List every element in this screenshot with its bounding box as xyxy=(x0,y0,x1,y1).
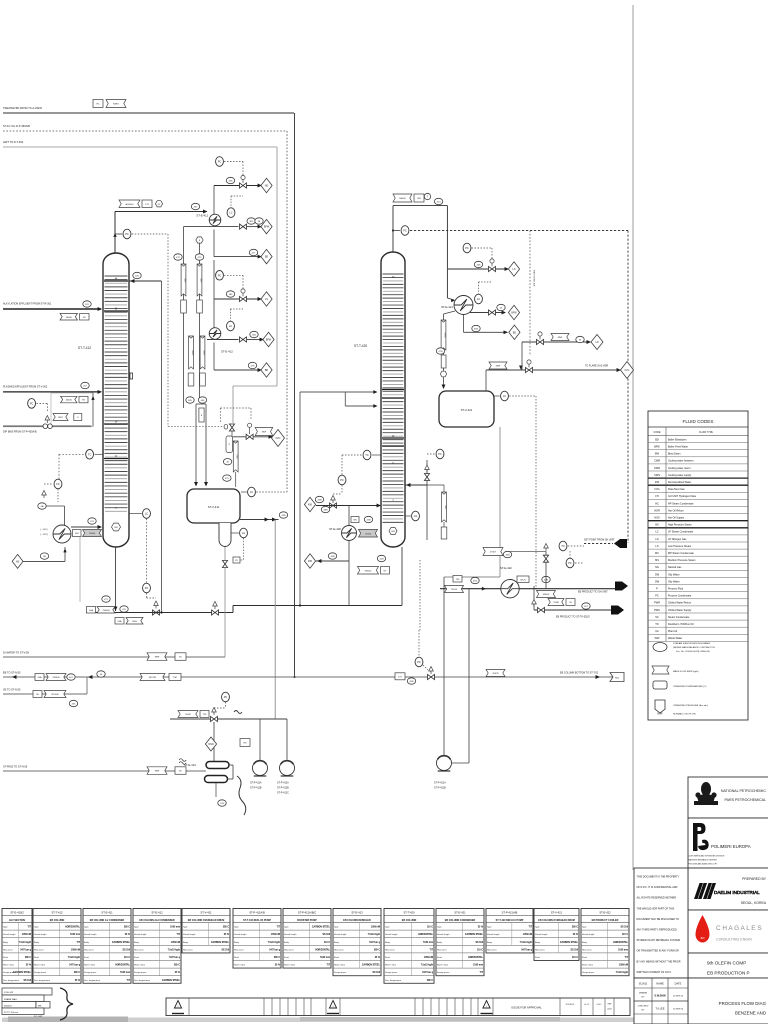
svg-text:ST-T-410 REFLUX PUMP: ST-T-410 REFLUX PUMP xyxy=(243,919,271,922)
wire flagline B xyxy=(183,227,185,408)
text prepared by xyxy=(742,877,767,881)
logo Chagales red drop xyxy=(696,915,710,943)
svg-text:ST-E-420: ST-E-420 xyxy=(329,527,341,531)
svg-text:PC: PC xyxy=(403,229,407,233)
svg-text:7.5x10 kg/h: 7.5x10 kg/h xyxy=(168,949,181,951)
svg-text:554/6: 554/6 xyxy=(185,714,191,716)
squiggle pnnz xyxy=(179,759,186,765)
svg-text:CARBON STEEL: CARBON STEEL xyxy=(560,941,579,944)
box overhead c2 xyxy=(414,194,424,202)
wire e421 drop xyxy=(463,315,465,333)
wire boot drop xyxy=(224,547,226,657)
wire drum lc stub xyxy=(241,491,247,493)
column ST-T-412 tray numbers xyxy=(115,279,118,511)
stream bubble condensate xyxy=(436,348,444,354)
instrument PC e412 xyxy=(216,271,224,281)
label product F xyxy=(578,591,608,594)
svg-text:EB COLUMN CONDENSER: EB COLUMN CONDENSER xyxy=(445,919,476,922)
title block box Polimeri xyxy=(688,818,768,868)
svg-text:BOOSTER PUMP: BOOSTER PUMP xyxy=(297,919,317,922)
relief hat G xyxy=(532,600,537,608)
svg-text:ST-E-413: ST-E-413 xyxy=(351,911,363,915)
valve vent e411 xyxy=(240,175,247,188)
label ST-E-422 xyxy=(500,566,512,570)
reboiler outlet line xyxy=(71,525,102,529)
wire PC-valve dashed xyxy=(147,593,157,598)
label ST-T-420 xyxy=(354,344,367,348)
instrument PC bottoms xyxy=(143,583,151,593)
svg-text:CARBON STEEL: CARBON STEEL xyxy=(465,933,484,936)
instrument PC e411 xyxy=(216,157,224,167)
svg-text:FRAME WALL: FRAME WALL xyxy=(4,998,18,1001)
valve feed c2 xyxy=(330,503,337,508)
svg-text:CWR: CWR xyxy=(654,467,660,470)
svg-text:Blow Down: Blow Down xyxy=(668,453,681,456)
svg-text:FVC: FVC xyxy=(625,369,630,372)
svg-text:PWR: PWR xyxy=(654,602,660,605)
svg-text:45N: 45N xyxy=(330,556,334,558)
wire LC-PC dashed xyxy=(146,519,148,584)
valve bottoms xyxy=(153,610,160,615)
svg-text:EB COLUMN OVERHEAD DRUM: EB COLUMN OVERHEAD DRUM xyxy=(538,919,575,922)
wire sh dashed xyxy=(568,546,584,563)
svg-text:NNN: NNN xyxy=(208,743,213,746)
svg-text:STORED IN ANY RETRIEVAL SYSTEM: STORED IN ANY RETRIEVAL SYSTEM xyxy=(637,939,680,942)
svg-text:SS 316: SS 316 xyxy=(570,949,578,951)
svg-text:Demineralized Water: Demineralized Water xyxy=(668,481,691,484)
stream bubble reboiler feed xyxy=(40,553,48,559)
wire lg dashed xyxy=(235,538,244,560)
svg-text:MN: MN xyxy=(38,1005,42,1007)
wire drum2 lc stub xyxy=(494,395,500,397)
valve boot xyxy=(222,561,227,568)
diamond BFW2 xyxy=(263,332,274,346)
svg-text:PC: PC xyxy=(30,401,34,405)
label P-421 xyxy=(434,782,446,790)
stream bubble G xyxy=(582,603,590,609)
svg-text:OW: OW xyxy=(655,580,660,583)
svg-text:CARBON STEEL: CARBON STEEL xyxy=(13,971,32,974)
column ST-T-420 shell xyxy=(381,252,405,547)
svg-text:285 C: 285 C xyxy=(74,972,80,974)
wire flagline C xyxy=(199,244,201,401)
svg-text:ISSUE FOR APPROVAL: ISSUE FOR APPROVAL xyxy=(511,1006,542,1010)
wire e421 to drop xyxy=(444,311,456,314)
svg-text:Hot Oil Supply: Hot Oil Supply xyxy=(668,517,685,520)
stream bubble 231 xyxy=(83,301,91,307)
svg-text:ANY THIRD PARTY, REPRODUCED,: ANY THIRD PARTY, REPRODUCED, xyxy=(637,929,678,932)
svg-text:NNF: NNF xyxy=(262,432,267,434)
svg-text:EB COLUMN 1st CONDENSER: EB COLUMN 1st CONDENSER xyxy=(90,919,125,922)
wire lg stub c2 xyxy=(405,515,411,517)
svg-text:VE TO ST-N-55: VE TO ST-N-55 xyxy=(3,689,21,692)
diamond HS reboiler xyxy=(12,554,23,568)
flag NN2 EB bottoms xyxy=(610,673,624,682)
instrument LG c2 xyxy=(412,511,420,521)
svg-text:ALKYLATION EFFLUENT FROM ST-R-: ALKYLATION EFFLUENT FROM ST-R-301 xyxy=(3,303,52,306)
svg-text:46N: 46N xyxy=(317,500,321,502)
svg-text:Shell / Tube: Shell / Tube xyxy=(134,965,146,967)
svg-text:ST-P-421B: ST-P-421B xyxy=(434,787,446,790)
vflag vent xyxy=(233,441,238,472)
wire pc eb dashed xyxy=(419,630,428,670)
svg-text:DW: DW xyxy=(655,481,660,484)
svg-text:110 C: 110 C xyxy=(572,957,578,959)
svg-text:(REFER MASS BALANCE CONTRACTOR: (REFER MASS BALANCE CONTRACTOR xyxy=(673,646,715,649)
svg-text:7.5x10 kg/h: 7.5x10 kg/h xyxy=(368,934,381,936)
vflag reflux c2 xyxy=(442,492,447,522)
banner+box EB2 xyxy=(140,674,181,681)
wire product line F xyxy=(440,587,616,591)
wire ls line e412 xyxy=(214,297,262,301)
svg-text:P.O. 64/3: P.O. 64/3 xyxy=(34,1016,43,1018)
stream bubble cnn xyxy=(218,800,226,806)
svg-text:ST-E-413: ST-E-413 xyxy=(184,763,196,767)
svg-text:BFW: BFW xyxy=(266,339,272,342)
wire condensate drop x446 xyxy=(442,314,446,389)
svg-text:Shell / Tube: Shell / Tube xyxy=(284,965,296,967)
svg-text:Medium Pressure Steam: Medium Pressure Steam xyxy=(668,559,696,562)
svg-text:34640: 34640 xyxy=(66,400,73,402)
svg-text:FLASHED EFFLUENT FROM ST-V-302: FLASHED EFFLUENT FROM ST-V-302 xyxy=(3,386,48,389)
svg-text:TO: TO xyxy=(655,623,658,626)
wire overhead run xyxy=(115,210,208,214)
svg-text:Vessel length: Vessel length xyxy=(134,933,147,936)
svg-text:BD: BD xyxy=(265,256,269,259)
svg-text:35 %: 35 % xyxy=(75,980,80,982)
wire hwt drop xyxy=(276,147,278,386)
box NT7 EB xyxy=(395,673,405,680)
svg-text:LC: LC xyxy=(503,394,506,398)
wire vent riser xyxy=(213,186,215,215)
instrument PC feed c2 xyxy=(338,475,346,485)
svg-text:HS: HS xyxy=(16,560,20,563)
svg-text:DATE: DATE xyxy=(675,982,682,986)
svg-text:FLUID TYPE: FLUID TYPE xyxy=(699,431,713,434)
svg-text:42N: 42N xyxy=(379,559,383,561)
svg-text:ST-P-412A: ST-P-412A xyxy=(277,782,289,785)
svg-text:BD: BD xyxy=(513,331,517,334)
valve EB bottoms xyxy=(428,674,435,679)
box boot valve xyxy=(233,557,240,563)
scan bottom smudge band xyxy=(2,1017,766,1023)
svg-text:SC: SC xyxy=(655,616,659,619)
svg-text:Shell / Tube: Shell / Tube xyxy=(437,965,449,967)
text Polimeri sub xyxy=(688,855,725,866)
wire e412 bottom line xyxy=(214,368,262,372)
svg-text:ST-V-421: ST-V-421 xyxy=(551,911,563,915)
column ST-T-412 shell xyxy=(103,253,129,547)
label ST-E-412 xyxy=(221,350,233,354)
vflag C1 xyxy=(197,264,202,296)
diamond BD1 xyxy=(261,249,272,263)
svg-text:Dowtherm 700/Flux Oil: Dowtherm 700/Flux Oil xyxy=(668,623,694,626)
svg-text:45578: 45578 xyxy=(492,673,499,675)
svg-text:5100 mm: 5100 mm xyxy=(70,934,80,936)
svg-text:SC: SC xyxy=(179,771,182,773)
svg-text:54/7 bar g: 54/7 bar g xyxy=(269,948,280,951)
label EB line xyxy=(3,672,21,675)
stream bubble e420 out xyxy=(328,553,336,559)
instrument PC EB bottoms xyxy=(415,657,423,667)
svg-text:456: 456 xyxy=(308,560,313,563)
wire drum feed 2 xyxy=(204,404,208,487)
svg-text:CWS: CWS xyxy=(654,474,660,477)
wire boot lg stub xyxy=(231,532,239,534)
svg-text:43N: 43N xyxy=(281,515,285,517)
svg-text:SS 316: SS 316 xyxy=(620,927,628,929)
instrument LC column1 xyxy=(143,509,151,519)
exchanger ST-E-413 bottom xyxy=(205,776,228,783)
stream bubble EB2 xyxy=(97,671,105,677)
box+banner bottoms1 xyxy=(87,607,116,614)
wire drum outlet xyxy=(240,518,279,522)
svg-text:Heat exch.: Heat exch. xyxy=(234,948,244,951)
wire setpoint drop dashed xyxy=(627,231,629,544)
svg-text:HORIZONTAL: HORIZONTAL xyxy=(315,948,330,951)
svg-text:55600/4: 55600/4 xyxy=(4,1005,12,1007)
svg-text:T/T: T/T xyxy=(127,980,131,982)
stream bubble 411 xyxy=(120,606,128,612)
svg-text:48N: 48N xyxy=(323,510,327,512)
label flare hdr xyxy=(585,365,608,368)
svg-text:T/T: T/T xyxy=(430,949,434,951)
svg-text:ST-E-421: ST-E-421 xyxy=(441,305,453,309)
svg-text:ST-P-421A: ST-P-421A xyxy=(434,782,446,785)
svg-text:26A: 26A xyxy=(89,609,93,612)
valve G xyxy=(538,607,545,612)
stream label ST-FC OIL xyxy=(3,124,30,128)
diamond NG vent xyxy=(261,178,272,192)
squiggle header xyxy=(234,711,242,714)
svg-text:NNF: NNF xyxy=(155,657,160,659)
wire e411 mid line xyxy=(184,225,263,229)
wire reflux riser x161 xyxy=(160,281,162,614)
rounded box flagC low xyxy=(199,408,204,422)
svg-text:CARBON STEEL: CARBON STEEL xyxy=(112,941,131,944)
svg-text:Vessel length: Vessel length xyxy=(437,933,450,936)
wire pc header dashed xyxy=(214,702,226,708)
wire dotted vent rect xyxy=(221,408,252,423)
svg-text:LN: LN xyxy=(595,341,598,344)
svg-text:26A: 26A xyxy=(38,676,42,679)
svg-text:MS: MS xyxy=(655,559,659,562)
svg-text:TC: TC xyxy=(88,452,92,456)
svg-text:CARBON STEEL: CARBON STEEL xyxy=(162,979,181,982)
wire drum2 outlet xyxy=(444,427,500,577)
wire branch dashed x530 xyxy=(529,231,531,357)
text project xyxy=(707,961,750,976)
svg-text:Vessel length: Vessel length xyxy=(3,933,16,936)
wire drum out drop x275 xyxy=(274,520,276,720)
svg-text:THIS DOCUMENT IS THE PROPERTY: THIS DOCUMENT IS THE PROPERTY xyxy=(637,876,680,879)
wire label leader xyxy=(79,537,81,602)
svg-text:UA: UA xyxy=(655,630,659,633)
svg-text:ST-P-411A: ST-P-411A xyxy=(250,782,262,785)
arrow EB bottoms flow xyxy=(596,675,600,679)
diamond above E413 xyxy=(205,737,216,751)
banner+box feed2b xyxy=(53,414,82,421)
svg-text:GU UNIT Hydrogen Flare: GU UNIT Hydrogen Flare xyxy=(668,495,697,498)
drum boot xyxy=(219,523,231,547)
svg-text:34640: 34640 xyxy=(66,317,73,319)
svg-text:ST-P-411B: ST-P-411B xyxy=(250,787,262,790)
arrow flare junction xyxy=(519,366,523,370)
wire VE line xyxy=(3,677,87,694)
svg-text:ST-T-412: ST-T-412 xyxy=(51,911,63,915)
wire reflux flag line xyxy=(427,485,444,527)
svg-text:Vessel length: Vessel length xyxy=(34,933,47,936)
wire c2 bottom drop xyxy=(401,547,403,606)
wire F riser line xyxy=(505,551,546,553)
exchanger ST-E-420 xyxy=(329,526,356,541)
logo Daelim xyxy=(694,883,716,899)
svg-text:CODE: CODE xyxy=(654,431,661,434)
stream bubble e420 xyxy=(364,516,372,522)
svg-text:ST T/7 3,N mm: ST T/7 3,N mm xyxy=(4,1012,18,1014)
svg-text:CUSTOMERS AND STRENGES DIVISIO: CUSTOMERS AND STRENGES DIVISION xyxy=(688,855,725,858)
wire pc feed dashed c2 xyxy=(333,485,342,494)
instrument TC c2 xyxy=(363,450,371,460)
svg-text:1059 kW: 1059 kW xyxy=(523,934,533,936)
svg-text:T5N8: T5N8 xyxy=(553,602,559,604)
stream bubble vent2 xyxy=(223,475,231,481)
valve ls e412 xyxy=(240,289,247,302)
svg-text:Shell / Tube: Shell / Tube xyxy=(582,965,594,967)
svg-text:Vessel length: Vessel length xyxy=(183,933,196,936)
wire column1 bottom drop xyxy=(114,547,118,611)
svg-text:Shell / Tube: Shell / Tube xyxy=(34,965,46,967)
stream bubbles flag bottom xyxy=(186,397,207,403)
svg-text:LG: LG xyxy=(242,531,245,535)
svg-text:CONSULTING ENGIN: CONSULTING ENGIN xyxy=(716,938,752,942)
squiggle cloud xyxy=(237,776,246,815)
svg-text:HC: HC xyxy=(655,502,659,505)
feed line flash drum xyxy=(3,390,102,394)
exchanger ST-E-422 xyxy=(501,580,519,598)
label ST-V-411 xyxy=(208,505,220,509)
drum ST-V-411 xyxy=(187,489,240,523)
wire dotted vent xyxy=(168,234,226,427)
svg-text:457006: 457006 xyxy=(51,694,59,696)
svg-text:CWB: CWB xyxy=(654,460,660,463)
wire pc overhead dotted xyxy=(132,233,168,235)
svg-text:ST-T-420: ST-T-420 xyxy=(403,911,415,915)
wire pc e421 dashed xyxy=(472,248,493,260)
svg-text:STREAM IDENTIFICATION NUMBER: STREAM IDENTIFICATION NUMBER xyxy=(673,642,710,645)
svg-text:HOR: HOR xyxy=(654,509,660,512)
svg-text:CARBON STEEL: CARBON STEEL xyxy=(362,964,381,967)
instrument PC c2 overhead xyxy=(392,226,409,236)
revision strip xyxy=(166,998,630,1016)
svg-text:ST-T-420: ST-T-420 xyxy=(354,344,367,348)
svg-text:PC: PC xyxy=(145,586,149,590)
svg-text:LC: LC xyxy=(655,531,658,534)
wire TC dashed left xyxy=(59,454,85,479)
svg-text:FH: FH xyxy=(655,495,659,498)
svg-text:PROCESS AND BASIC ENG. DPT.: PROCESS AND BASIC ENG. DPT. xyxy=(688,863,718,866)
instrument PC header xyxy=(222,692,230,702)
wire pc2 dashed xyxy=(224,275,243,290)
svg-text:DAELIM INDUSTRIAL: DAELIM INDUSTRIAL xyxy=(714,890,760,895)
svg-text:110 C: 110 C xyxy=(427,927,433,929)
svg-text:Heat exch.: Heat exch. xyxy=(487,948,497,951)
wire e412 mid line xyxy=(207,338,264,342)
wire hwt elbow xyxy=(233,386,277,423)
curly brace xyxy=(60,988,73,1020)
stream bubble drum out xyxy=(279,512,287,518)
svg-text:Cooling water between: Cooling water between xyxy=(668,460,694,463)
instrument LC drum2 xyxy=(501,391,509,401)
exchanger ST-E-421 xyxy=(441,296,473,315)
diamond LN vent xyxy=(591,335,603,350)
box+banner bottoms2 xyxy=(115,618,143,625)
svg-text:Des. temperature: Des. temperature xyxy=(3,979,20,982)
wire feed3 riser xyxy=(91,392,94,426)
wire overhead riser xyxy=(113,212,116,254)
svg-text:Boiler Blowdown: Boiler Blowdown xyxy=(668,438,687,441)
svg-text:Hot Oil Return: Hot Oil Return xyxy=(668,509,684,512)
diamond feed c2 xyxy=(304,497,315,511)
svg-text:74560: 74560 xyxy=(443,332,445,338)
svg-text:ST-E-411: ST-E-411 xyxy=(196,214,208,218)
svg-text:LC: LC xyxy=(229,324,232,328)
svg-text:NATIONAL PETROCHEMIC: NATIONAL PETROCHEMIC xyxy=(721,789,767,793)
wire treated-bd drop xyxy=(294,113,296,677)
svg-text:Heat exch.: Heat exch. xyxy=(437,948,447,951)
logo NPC emblem xyxy=(694,782,718,805)
svg-text:PROCESS FLOW DIAG: PROCESS FLOW DIAG xyxy=(719,1001,767,1006)
circle T c2 xyxy=(424,193,430,199)
diamond BFW1 xyxy=(261,219,272,233)
label flash drum effluent xyxy=(3,386,48,389)
wire pump421 drop xyxy=(443,577,445,755)
svg-text:110 C: 110 C xyxy=(124,957,130,959)
svg-text:SS 316: SS 316 xyxy=(122,949,130,951)
wire drum feed top xyxy=(196,403,206,405)
svg-text:OPERATING PRESSURE (Bar abs): OPERATING PRESSURE (Bar abs) xyxy=(673,704,708,707)
vbox C2 xyxy=(200,373,206,386)
banner lp vent xyxy=(551,334,569,341)
instrument FC reboiler xyxy=(54,479,62,489)
svg-text:HS: HS xyxy=(655,524,659,527)
banner 2756T xyxy=(483,548,512,558)
svg-text:ST-P-412A/B/C: ST-P-412A/B/C xyxy=(298,911,316,915)
svg-text:S.W.SS.F: S.W.SS.F xyxy=(566,1004,575,1006)
svg-text:OF N.P.C. IT IS CONFIDENTIAL A: OF N.P.C. IT IS CONFIDENTIAL AND xyxy=(637,886,678,889)
label ST-E-413 xyxy=(184,763,196,767)
svg-text:Heat exch.: Heat exch. xyxy=(34,948,44,951)
wire fc-oil header dotted xyxy=(3,130,287,132)
wire c2 condenser drop xyxy=(447,206,455,303)
stream bubble vent xyxy=(226,177,234,183)
column ST-T-420 trays xyxy=(382,274,404,522)
wire c2 upper feed xyxy=(300,390,378,394)
svg-text:Des. temperature: Des. temperature xyxy=(84,979,101,982)
feed line dip bottoms xyxy=(3,425,91,427)
svg-text:N5500: N5500 xyxy=(543,594,550,596)
svg-text:PREPARED BY: PREPARED BY xyxy=(742,877,767,881)
svg-text:15.SEP.10: 15.SEP.10 xyxy=(673,1009,684,1011)
stream bubble pair xyxy=(38,503,46,509)
diamond FVC flare2 xyxy=(621,362,634,379)
svg-text:7.5x10 kg/h: 7.5x10 kg/h xyxy=(268,942,281,944)
title block box Chagales xyxy=(688,910,768,953)
stream bubble 477 xyxy=(249,249,257,255)
wire vent drop xyxy=(232,431,236,487)
svg-text:EB COLUMN REBOILER: EB COLUMN REBOILER xyxy=(343,919,371,922)
svg-text:TREATED BD FROM TX-A-452/D: TREATED BD FROM TX-A-452/D xyxy=(3,106,42,110)
